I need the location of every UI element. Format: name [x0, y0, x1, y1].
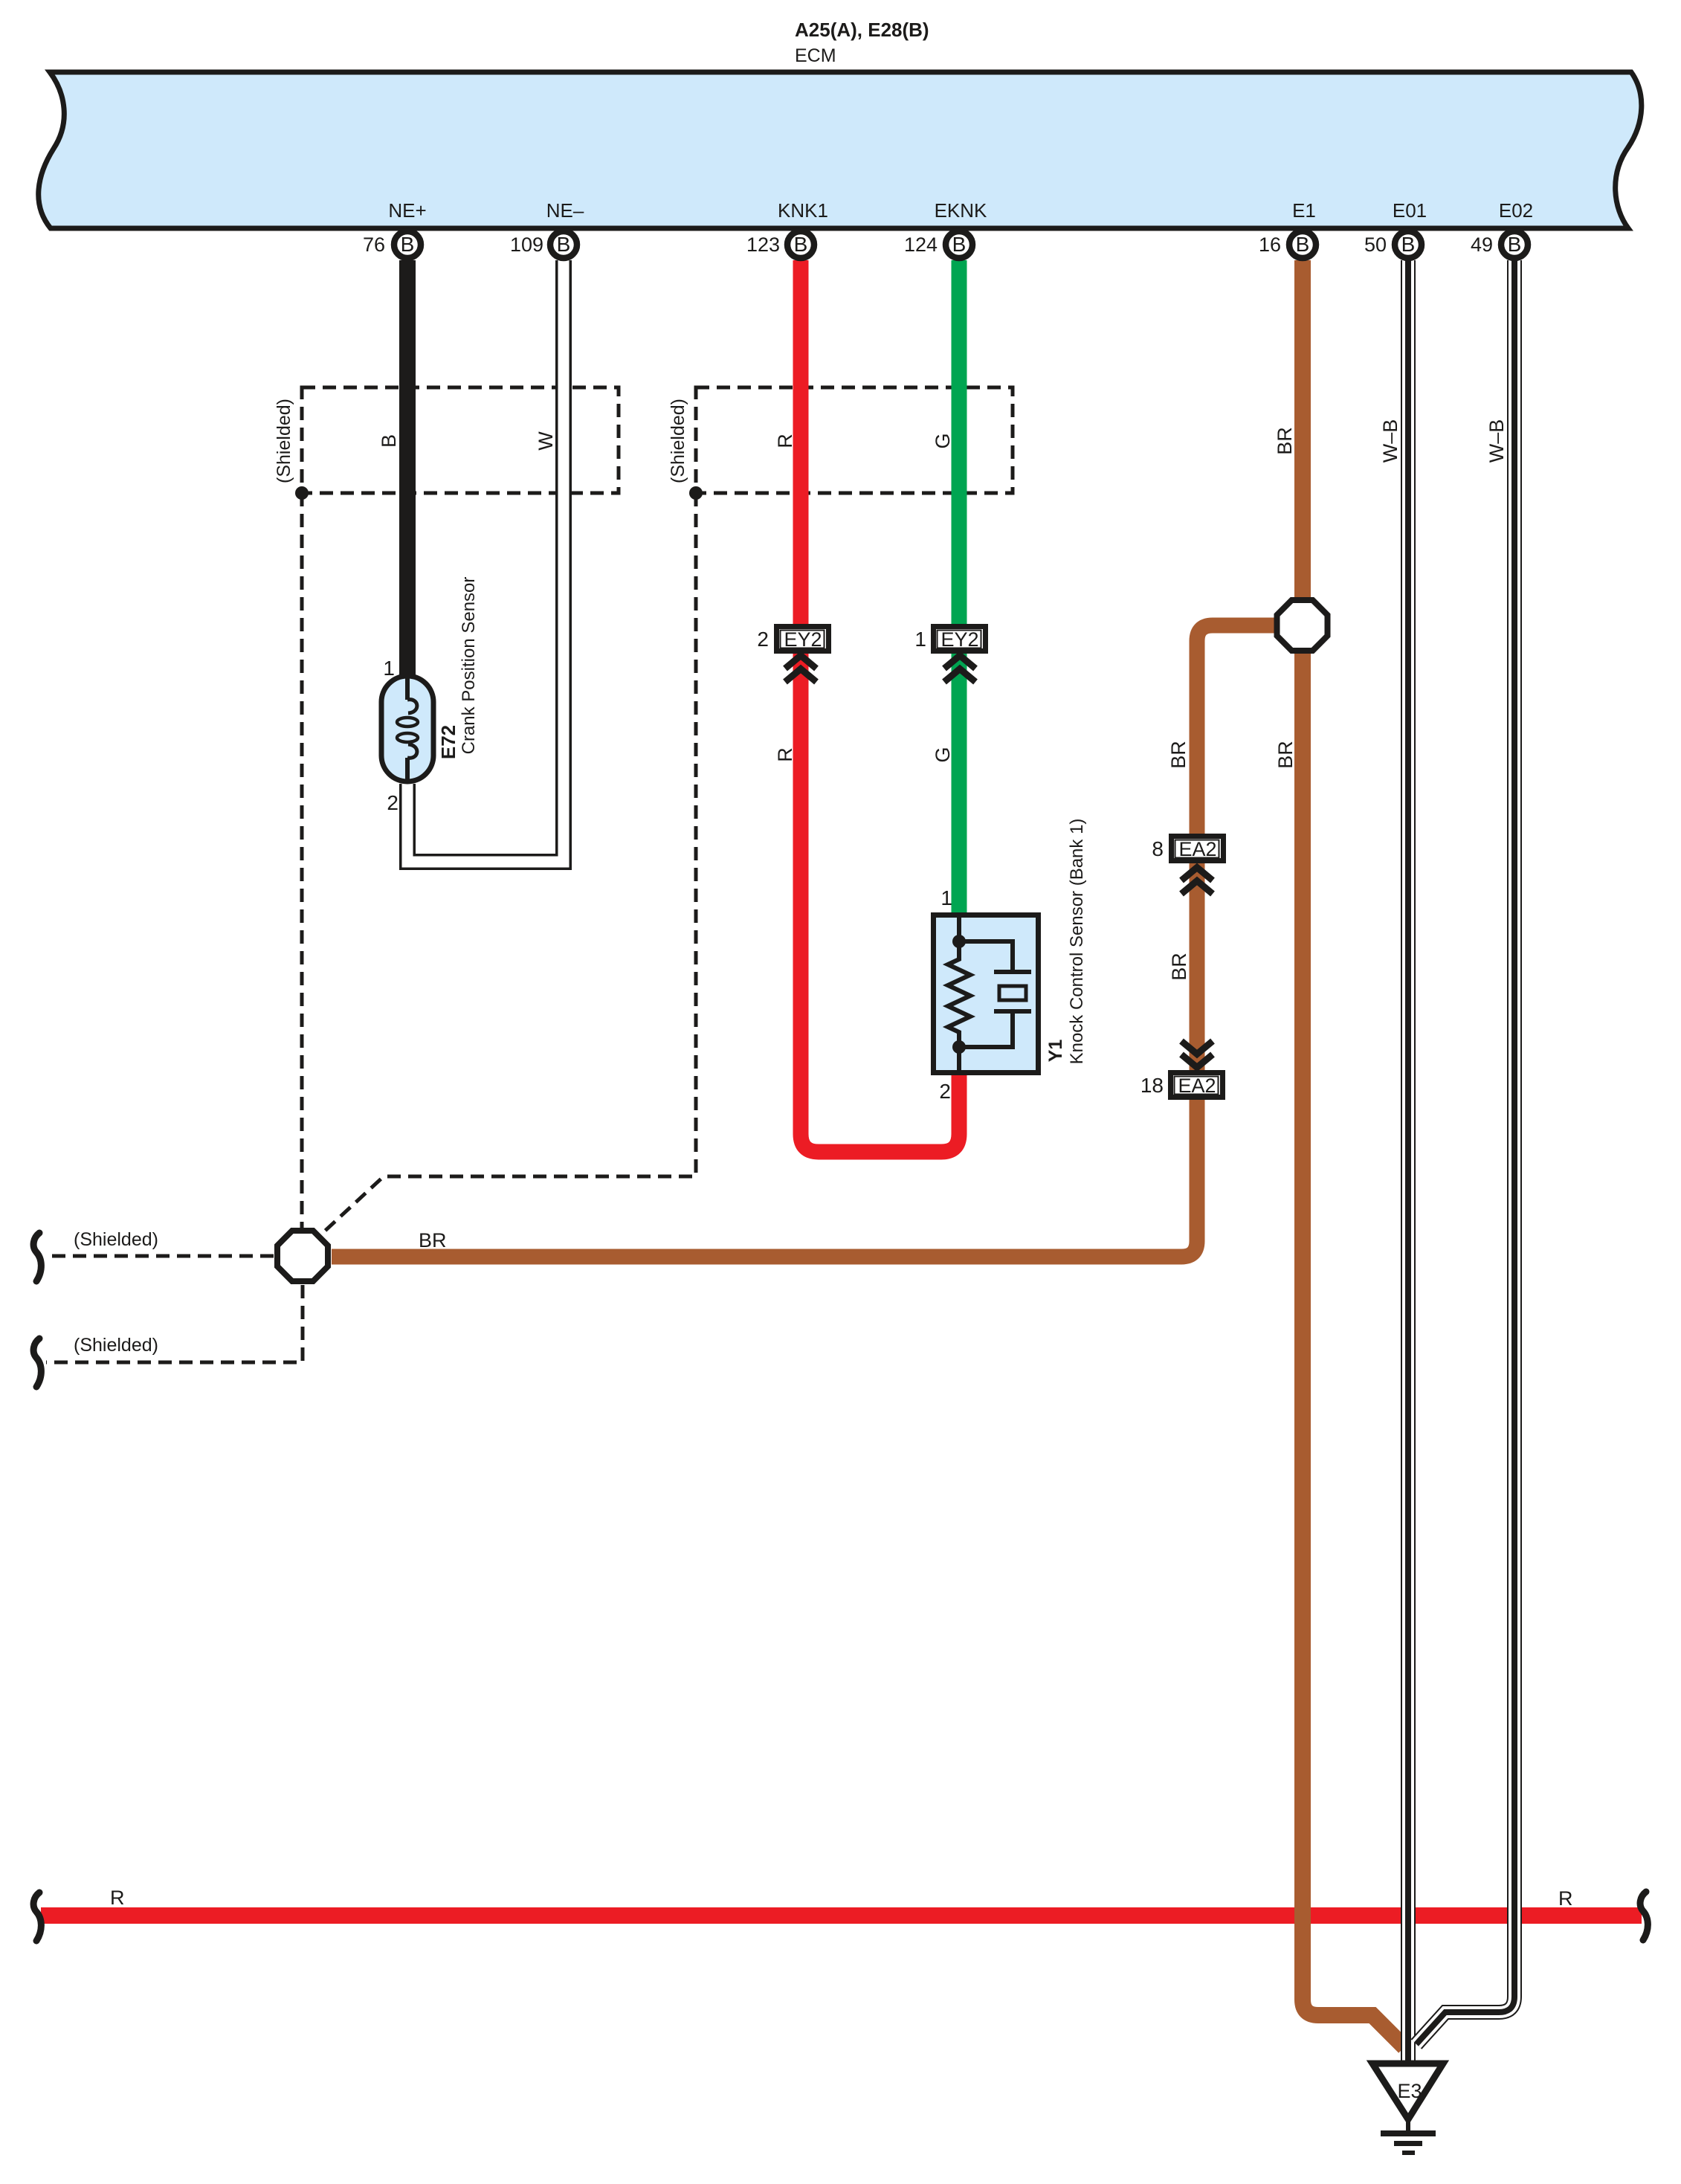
svg-text:R: R: [1558, 1887, 1573, 1910]
svg-text:B: B: [794, 233, 808, 256]
svg-text:W–B: W–B: [1485, 419, 1508, 463]
svg-text:B: B: [1508, 233, 1522, 256]
svg-text:E01: E01: [1393, 199, 1427, 222]
svg-text:B: B: [557, 233, 571, 256]
svg-text:Crank Position Sensor: Crank Position Sensor: [459, 577, 479, 755]
svg-text:2: 2: [939, 1080, 951, 1103]
svg-text:EA2: EA2: [1178, 838, 1216, 860]
svg-text:16: 16: [1259, 233, 1281, 256]
svg-text:B: B: [378, 434, 400, 448]
svg-text:BR: BR: [419, 1229, 447, 1252]
svg-text:(Shielded): (Shielded): [74, 1229, 158, 1250]
svg-text:G: G: [932, 747, 954, 762]
svg-text:E72: E72: [437, 725, 459, 759]
svg-text:Knock Control Sensor (Bank 1): Knock Control Sensor (Bank 1): [1067, 819, 1087, 1065]
svg-text:EKNK: EKNK: [935, 199, 987, 222]
svg-text:2: 2: [387, 791, 399, 814]
svg-text:B: B: [401, 233, 415, 256]
svg-text:18: 18: [1140, 1074, 1164, 1097]
svg-text:NE+: NE+: [388, 199, 426, 222]
svg-text:(Shielded): (Shielded): [74, 1335, 158, 1356]
svg-text:Y1: Y1: [1045, 1040, 1066, 1063]
svg-text:BR: BR: [1274, 741, 1297, 769]
svg-text:1: 1: [383, 657, 395, 680]
svg-text:123: 123: [746, 233, 780, 256]
svg-text:(Shielded): (Shielded): [668, 399, 688, 483]
svg-text:EY2: EY2: [784, 628, 822, 651]
svg-text:KNK1: KNK1: [778, 199, 828, 222]
svg-text:B: B: [952, 233, 967, 256]
svg-text:E02: E02: [1499, 199, 1533, 222]
svg-text:2: 2: [757, 628, 769, 651]
svg-text:(Shielded): (Shielded): [274, 399, 294, 483]
svg-text:G: G: [932, 433, 954, 448]
svg-text:B: B: [1401, 233, 1416, 256]
svg-text:76: 76: [363, 233, 385, 256]
svg-text:BR: BR: [1167, 741, 1190, 769]
svg-text:NE–: NE–: [546, 199, 584, 222]
svg-text:ECM: ECM: [795, 45, 836, 66]
svg-text:124: 124: [904, 233, 938, 256]
svg-text:1: 1: [940, 886, 952, 909]
svg-text:R: R: [774, 434, 796, 448]
svg-text:R: R: [774, 747, 796, 762]
svg-text:49: 49: [1471, 233, 1493, 256]
svg-text:EY2: EY2: [940, 628, 978, 651]
svg-text:1: 1: [914, 628, 926, 651]
svg-text:8: 8: [1152, 837, 1164, 860]
svg-text:E3: E3: [1397, 2080, 1422, 2102]
svg-text:50: 50: [1364, 233, 1387, 256]
svg-text:A25(A), E28(B): A25(A), E28(B): [795, 19, 929, 41]
svg-text:BR: BR: [1274, 427, 1296, 455]
svg-text:W: W: [535, 431, 557, 451]
svg-text:W–B: W–B: [1379, 419, 1401, 463]
svg-text:B: B: [1296, 233, 1310, 256]
svg-text:E1: E1: [1292, 199, 1316, 222]
svg-text:109: 109: [510, 233, 543, 256]
svg-text:EA2: EA2: [1178, 1075, 1216, 1097]
svg-text:BR: BR: [1168, 953, 1190, 981]
svg-text:R: R: [110, 1887, 125, 1909]
